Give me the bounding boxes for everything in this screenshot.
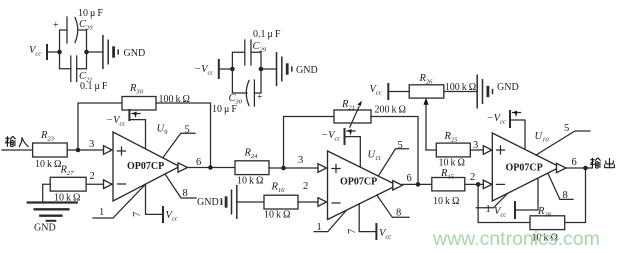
Vcc power port (U11) <box>376 223 391 241</box>
svg-text:8: 8 <box>183 188 188 199</box>
wire C21 to node A2 <box>77 52 87 69</box>
op-amp U10 OP07CP <box>492 131 560 201</box>
svg-text:1: 1 <box>99 207 104 218</box>
op-amp U9 OP07CP <box>113 124 180 202</box>
wire R15 to pin 2 U10 <box>465 183 484 185</box>
svg-text:R30: R30 <box>129 83 144 96</box>
svg-text:−Vcc: −Vcc <box>106 115 125 128</box>
wire riser to C29 <box>232 52 244 69</box>
svg-text:GND: GND <box>34 223 56 234</box>
pin 8 stub U10 <box>548 173 573 199</box>
wire Vcc to R26 <box>388 91 409 93</box>
svg-text:200 k Ω: 200 k Ω <box>375 105 406 116</box>
svg-text:GND: GND <box>124 48 146 59</box>
svg-text:7: 7 <box>347 229 358 234</box>
svg-text:1: 1 <box>317 222 322 233</box>
node A2 <box>84 50 89 55</box>
wire GND1 to R16 <box>237 201 264 203</box>
svg-text:10 μ F: 10 μ F <box>212 104 237 115</box>
svg-text:8: 8 <box>396 208 401 219</box>
svg-text:3: 3 <box>473 140 478 151</box>
-Vcc power port (top-middle decoupling) <box>194 59 219 79</box>
svg-text:10 μ F: 10 μ F <box>78 8 103 19</box>
svg-text:R23: R23 <box>40 130 55 143</box>
resistor R27 <box>50 165 86 204</box>
svg-text:10 k Ω: 10 k Ω <box>433 196 459 207</box>
wire U10 output to 输出 <box>566 167 592 169</box>
ground GND (bar style) <box>277 52 318 86</box>
ground GND (bar style) <box>477 75 518 109</box>
wire -Vcc to op-amp U11 V- <box>345 137 361 168</box>
pin 3 arrow U10 <box>483 146 492 155</box>
Vcc power port (U10) <box>494 201 515 219</box>
pin 7 wire U10 to Vcc <box>515 178 538 210</box>
Vcc power port (R26) <box>370 83 389 100</box>
capacitor C30 10uF polarized <box>212 80 263 115</box>
node B2 <box>259 67 264 72</box>
capacitor C20 10uF polarized <box>53 8 103 43</box>
wire U11 output to R15 <box>402 183 432 185</box>
Vcc power port (U9) <box>163 206 178 223</box>
wire -Vcc to node <box>219 68 233 70</box>
svg-text:R27: R27 <box>60 165 75 178</box>
svg-text:6: 6 <box>196 157 201 168</box>
svg-text:5: 5 <box>564 123 569 134</box>
pin 3 arrow U9 <box>104 146 113 155</box>
resistor R23 <box>33 130 68 170</box>
resistor R24 <box>235 148 269 187</box>
svg-text:10 k Ω: 10 k Ω <box>237 176 263 187</box>
svg-text:−Vcc: −Vcc <box>487 113 506 126</box>
svg-text:GND1: GND1 <box>197 197 224 208</box>
pin 1 stub U10 <box>476 193 508 208</box>
pin 2 arrow U11 <box>318 198 327 207</box>
node N1 (pin3 / feedback) <box>76 148 81 153</box>
wire R26 wiper to R25 <box>426 149 436 151</box>
wire R26 to GND <box>444 91 477 93</box>
svg-text:10 k Ω: 10 k Ω <box>264 210 290 221</box>
wire R25 to pin 3 U10 <box>470 149 483 151</box>
output arrow U11 pin 6 <box>393 181 403 190</box>
node N4 (output U11) <box>416 182 421 187</box>
svg-text:10 k Ω: 10 k Ω <box>439 158 465 169</box>
node N5 (feedback U10) <box>476 182 481 187</box>
svg-text:GND: GND <box>497 82 519 93</box>
svg-text:−Vcc: −Vcc <box>194 64 213 77</box>
svg-text:0.1 μ F: 0.1 μ F <box>253 29 281 40</box>
capacitor C29 0.1uF <box>245 29 281 65</box>
svg-text:3: 3 <box>298 155 303 166</box>
svg-text:Vcc: Vcc <box>494 206 506 219</box>
svg-text:10 k Ω: 10 k Ω <box>35 159 61 170</box>
svg-text:www.cntronics.com: www.cntronics.com <box>432 228 600 250</box>
pin 8 stub U11 <box>377 195 409 217</box>
op-amp U11 OP07CP <box>328 150 398 220</box>
output arrow U10 pin 6 <box>557 163 567 172</box>
pin 2 arrow U9 <box>104 180 113 189</box>
svg-text:R25: R25 <box>444 131 459 144</box>
pin 8 stub U9 <box>165 174 196 198</box>
svg-text:R15: R15 <box>440 168 455 181</box>
svg-text:6: 6 <box>407 173 412 184</box>
resistor R30 <box>122 83 190 110</box>
wire R23 to pin 3 <box>67 149 103 151</box>
svg-text:5: 5 <box>185 125 190 136</box>
resistor R28 <box>530 206 565 244</box>
pin 5 stub U10 <box>536 131 590 155</box>
svg-text:Vcc: Vcc <box>29 45 41 58</box>
svg-text:0.1 μ F: 0.1 μ F <box>80 81 108 92</box>
svg-text:R21: R21 <box>341 99 355 112</box>
node N3 <box>281 166 286 171</box>
wire C29 to node B2 <box>251 52 261 69</box>
wire C20 to node A2 <box>79 30 87 52</box>
svg-text:R16: R16 <box>271 182 286 195</box>
wire node N3 up to R21 <box>284 117 335 169</box>
pin 1 stub U9 <box>93 184 146 218</box>
resistor R16 <box>264 182 298 221</box>
earth ground GND <box>27 203 78 234</box>
wire Vcc to node <box>47 51 60 53</box>
svg-text:3: 3 <box>89 139 94 150</box>
wire R30 to output node <box>156 103 211 168</box>
svg-text:2: 2 <box>470 172 475 183</box>
pin 7 wire U9 to Vcc <box>146 184 164 214</box>
wire R16 to pin 2 U11 <box>298 201 318 203</box>
node N2 (output U9) <box>208 165 213 170</box>
svg-text:2: 2 <box>90 171 95 182</box>
svg-text:−Vcc: −Vcc <box>321 130 340 143</box>
svg-text:+: + <box>257 92 263 103</box>
svg-text:8: 8 <box>563 190 568 201</box>
ground GND1 (bar style, mirrored) <box>222 185 237 219</box>
pin 1 stub U11 <box>314 210 347 232</box>
wire riser to C20 <box>60 30 68 52</box>
wire -Vcc to op-amp U9 V- <box>129 120 145 149</box>
svg-text:5: 5 <box>398 140 403 151</box>
potentiometer R26 100k <box>409 73 476 150</box>
input terminal 输入 <box>5 136 29 147</box>
svg-text:U9: U9 <box>157 124 169 137</box>
feedback wire node N5 to R28 <box>478 184 530 222</box>
Vcc power port (top-left decoupling) <box>29 44 47 60</box>
wire -Vcc to op-amp U10 V- <box>510 120 525 149</box>
wire U9 output to R24 <box>188 167 236 169</box>
potentiometer R21 200k <box>334 99 406 127</box>
wire node B2 to GND <box>261 68 277 70</box>
capacitor C21 0.1uF <box>71 56 108 92</box>
-Vcc power port (U11) <box>321 128 355 145</box>
node N6 (output U10) <box>583 166 588 171</box>
pin 5 stub U11 <box>378 149 408 176</box>
wire riser to C21 <box>60 52 71 69</box>
-Vcc power port (U10) <box>487 110 521 128</box>
wire R21 to output node U11 <box>371 117 418 185</box>
wire C30 to node B2 <box>254 69 261 93</box>
resistor R15 <box>432 168 465 207</box>
svg-text:6: 6 <box>572 157 577 168</box>
output terminal 输出 <box>590 158 614 168</box>
wire R27 to earth <box>43 184 51 202</box>
svg-text:7: 7 <box>132 212 143 217</box>
svg-text:R24: R24 <box>244 148 259 161</box>
pin 5 stub U9 <box>163 133 195 158</box>
svg-text:GND: GND <box>296 65 318 76</box>
svg-text:U11: U11 <box>368 150 382 163</box>
resistor R25 <box>436 131 470 169</box>
svg-text:U10: U10 <box>535 131 550 144</box>
pin 3 arrow U11 <box>318 164 327 173</box>
svg-text:1: 1 <box>486 204 491 215</box>
pin 7 wire U11 to Vcc <box>359 204 376 232</box>
ground GND (bar style) <box>103 35 145 69</box>
wire R24 to pin 3 U11 <box>269 167 318 169</box>
svg-text:R26: R26 <box>419 73 434 86</box>
wire riser to C30 <box>232 69 247 93</box>
wire R27 to pin 2 <box>86 183 103 185</box>
svg-text:OP07CP: OP07CP <box>340 177 377 188</box>
feedback wire R28 to output node <box>565 168 586 223</box>
svg-text:Vcc: Vcc <box>166 210 178 223</box>
output arrow U9 pin 6 <box>178 163 188 172</box>
svg-text:Vcc: Vcc <box>370 84 382 97</box>
wire input to R23 <box>2 149 33 151</box>
wire node A2 to GND <box>87 51 103 53</box>
svg-text:OP07CP: OP07CP <box>127 161 164 172</box>
node A1 <box>57 50 62 55</box>
svg-text:R28: R28 <box>537 206 552 219</box>
svg-text:OP07CP: OP07CP <box>506 163 543 174</box>
svg-text:+: + <box>53 20 59 31</box>
node B1 <box>230 67 235 72</box>
svg-text:C29: C29 <box>253 41 267 54</box>
wire feedback up to R30 <box>78 103 122 150</box>
svg-text:2: 2 <box>303 181 308 192</box>
pin 2 arrow U10 <box>483 180 492 189</box>
svg-text:Vcc: Vcc <box>379 228 391 241</box>
-Vcc power port (U9) <box>106 109 140 128</box>
